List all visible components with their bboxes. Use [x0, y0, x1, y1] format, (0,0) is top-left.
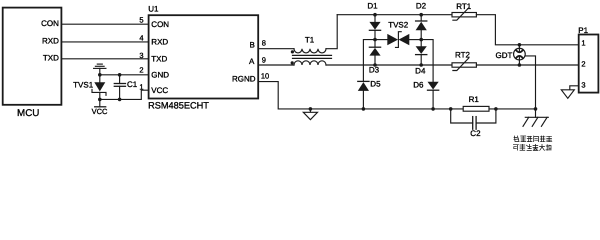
line 1: 双绞线屏蔽层	[514, 136, 519, 142]
svg-text:VCC: VCC	[151, 86, 168, 95]
node junction C1 bottom	[118, 98, 122, 102]
svg-text:T1: T1	[305, 36, 315, 45]
earth ground symbol (hatched)	[523, 109, 548, 126]
svg-text:D5: D5	[370, 80, 381, 89]
node junction node1 (D1/D3/TVS2 left)	[373, 38, 377, 42]
diode D1	[367, 1, 380, 39]
capacitor C2	[451, 109, 496, 138]
TVS diode TVS1	[73, 75, 106, 100]
svg-text:10: 10	[261, 71, 269, 80]
capacitor C1	[114, 75, 137, 100]
pin number 9	[262, 56, 266, 65]
ground symbol (open triangle) on RGND rail	[303, 109, 317, 120]
svg-text:9: 9	[262, 56, 266, 65]
svg-text:TXD: TXD	[43, 54, 59, 63]
connector P1	[578, 26, 598, 93]
common-mode choke T1	[291, 36, 332, 65]
node junction D5 bottom	[362, 107, 366, 111]
node junction D4 on A line	[419, 63, 423, 67]
svg-text:B: B	[250, 41, 255, 50]
diode D5	[358, 80, 381, 109]
svg-text:C2: C2	[470, 129, 481, 138]
svg-text:3: 3	[581, 81, 585, 90]
power symbol VCC	[92, 99, 108, 116]
svg-text:D4: D4	[415, 67, 426, 76]
svg-text:P1: P1	[578, 26, 588, 35]
inverted ground symbol above TVS1	[94, 64, 106, 75]
diode D3	[369, 40, 381, 75]
svg-text:RSM485ECHT: RSM485ECHT	[148, 101, 209, 111]
svg-text:D3: D3	[369, 65, 380, 74]
svg-text:RXD: RXD	[42, 37, 59, 46]
gas discharge tube GDT	[496, 45, 526, 65]
pin number 2	[139, 66, 143, 75]
pin number 5	[139, 15, 143, 24]
wire TXD (MCU to U1 pin3)	[61, 58, 148, 60]
node junction R1 right	[494, 107, 498, 111]
svg-text:TXD: TXD	[151, 54, 167, 63]
svg-text:VCC: VCC	[92, 107, 108, 116]
svg-text:2: 2	[139, 66, 143, 75]
wire node2 to D6 branch	[421, 40, 433, 82]
node junction GDT top	[518, 43, 522, 47]
diode D4	[415, 40, 427, 76]
node junction C1 top	[118, 73, 122, 77]
node junction earth	[534, 107, 538, 111]
svg-text:TVS1: TVS1	[73, 81, 94, 90]
wire CON (MCU to U1 pin5)	[61, 23, 148, 25]
fuse RT2 (PTC)	[452, 50, 476, 70]
ground symbol (open triangle) at P1 pin3	[561, 90, 574, 99]
svg-text:D6: D6	[413, 81, 424, 90]
wire GDT earth electrode to ground rail	[525, 56, 536, 109]
line 2: 可靠连接大地	[513, 145, 518, 151]
wire ground rail (R1 section)	[451, 108, 536, 110]
resistor R1	[463, 95, 489, 111]
pin number 1	[139, 82, 143, 91]
svg-text:RXD: RXD	[151, 38, 168, 47]
svg-text:8: 8	[262, 39, 266, 48]
node junction node2 (D2/D4/TVS2 right)	[419, 38, 423, 42]
svg-text:RGND: RGND	[232, 75, 256, 84]
wire A (U1 pin9 to T1)	[258, 64, 294, 66]
TVS diode TVS2 (bidirectional)	[375, 20, 421, 47]
wire A line (T1 to RT2)	[326, 64, 452, 66]
node junction D2 top	[419, 13, 423, 17]
svg-text:D2: D2	[416, 1, 427, 10]
svg-text:4: 4	[139, 34, 143, 43]
pin number 4	[139, 34, 143, 43]
node junction TVS1 top	[98, 73, 102, 77]
svg-text:CON: CON	[41, 19, 59, 28]
MCU block	[3, 8, 62, 119]
svg-text:TVS2: TVS2	[388, 20, 409, 29]
node junction D3 on A line	[373, 63, 377, 67]
diode D2	[416, 1, 427, 39]
pin number 8	[262, 39, 266, 48]
transceiver U1 RSM485ECHT	[148, 4, 258, 110]
svg-text:5: 5	[139, 15, 143, 24]
svg-text:D1: D1	[367, 1, 378, 10]
diode D6	[413, 81, 438, 109]
svg-text:2: 2	[581, 60, 585, 69]
node junction TVS1 bottom	[98, 98, 102, 102]
wire B (U1 pin8 to T1)	[258, 48, 294, 50]
svg-text:GND: GND	[151, 70, 169, 79]
pin number 3	[139, 51, 143, 60]
svg-text:1: 1	[581, 38, 585, 47]
svg-text:R1: R1	[469, 95, 480, 104]
node junction GDT bottom	[518, 63, 522, 67]
wire top rail (B to RT1)	[337, 14, 452, 16]
svg-text:GDT: GDT	[496, 51, 513, 60]
svg-text:RT1: RT1	[456, 2, 472, 11]
svg-text:U1: U1	[148, 4, 159, 13]
wire VCC rail (TVS1/C1 bottom to U1 pin1)	[100, 90, 149, 99]
wire RT2 to P1 pin2	[476, 64, 578, 66]
note text: shield grounding (双绞线屏蔽层 / 可靠连接大地 drawn as vector glyphs)	[513, 136, 551, 150]
wire RXD (MCU to U1 pin4)	[61, 41, 148, 43]
wire P1 pin3 to ground	[570, 86, 579, 90]
svg-text:C1: C1	[127, 80, 138, 89]
pin number 10	[261, 71, 269, 80]
svg-text:3: 3	[139, 51, 143, 60]
wire GND rail (gnd symbol / TVS1 / C1 to U1 pin2)	[100, 74, 149, 76]
wire B up to top rail	[326, 15, 337, 49]
node junction gnd symbol	[309, 107, 313, 111]
wire RT1 to P1 pin1	[476, 15, 578, 45]
svg-text:MCU: MCU	[17, 108, 39, 119]
wire RGND (U1 pin10 down to ground rail)	[258, 82, 451, 109]
svg-text:A: A	[249, 57, 255, 66]
node junction D6 bottom	[431, 107, 435, 111]
svg-text:CON: CON	[151, 20, 169, 29]
node junction D1 top	[373, 13, 377, 17]
fuse RT1 (PTC)	[452, 2, 476, 20]
node junction R1 left	[449, 107, 453, 111]
wire node1 to D5 branch	[363, 40, 375, 82]
